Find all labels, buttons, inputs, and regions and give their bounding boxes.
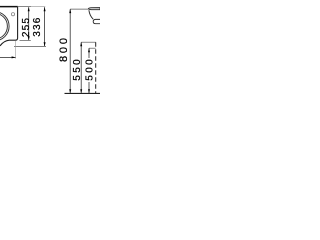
arrow 255 bottom [28,36,30,40]
wall dashed line [95,42,97,93]
dim line 550 [80,42,82,93]
top extension line [18,6,31,8]
floor line [65,92,101,94]
side view bowl curve [89,10,93,19]
dim line 500 upper [88,48,90,58]
ext 500 [89,47,96,49]
dim line 800 [69,9,71,93]
svg-text:550: 550 [72,59,83,81]
arrow 500 bottom [88,89,90,93]
side view bottom box [93,19,100,23]
tap hole [11,13,14,16]
arrow 550 top [80,42,82,46]
ext 255 bottom [20,39,31,41]
ext rim to 800 [70,8,88,10]
dim line 336 [44,7,46,46]
basin plan top edge [0,6,18,8]
arrow 255 top [28,7,30,11]
svg-text:500: 500 [85,59,96,81]
bottom-left dim line [0,56,16,58]
arrow 800 top [69,9,71,13]
arrow 336 bottom [44,42,46,46]
bottom-left arrow [12,56,16,58]
svg-text:336: 336 [32,17,43,36]
dim line 255 [28,7,30,40]
dim line 500 lower [88,82,90,93]
bottom-left ext vertical [15,41,17,59]
arrow 336 top [44,7,46,11]
bowl outer arc [0,12,9,41]
arrow 800 bottom [69,89,71,93]
svg-text:255: 255 [21,18,32,37]
ext 336 bottom [14,45,46,47]
svg-text:800: 800 [58,38,70,62]
bowl inner arc [0,13,7,39]
side view rim [88,8,100,10]
arrow 550 bottom [80,89,82,93]
basin plan outline right/bottom [0,7,18,46]
ext 550 [81,41,96,43]
arrow 500 top [88,48,90,52]
